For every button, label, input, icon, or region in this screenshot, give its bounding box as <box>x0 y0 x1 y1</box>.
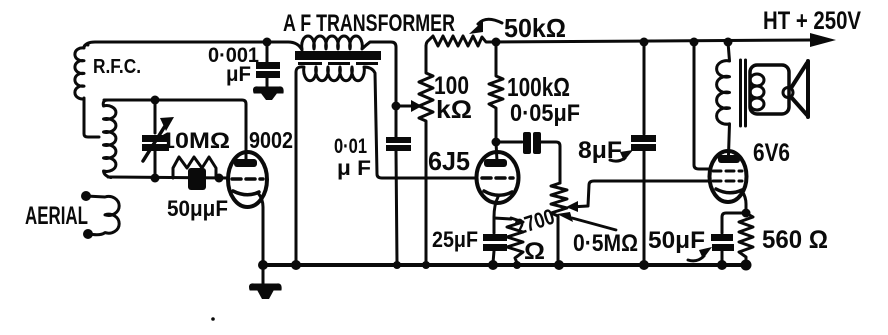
svg-text:R.F.C.: R.F.C. <box>93 56 141 78</box>
resistor 2700 cathode bias <box>507 218 523 263</box>
svg-text:6V6: 6V6 <box>753 139 790 167</box>
6V6 screen dashes <box>713 170 742 173</box>
wire 6J5 cathode <box>494 197 498 233</box>
capacitor 50uF cathode bypass <box>711 234 733 241</box>
node bus junction 2700 <box>513 261 521 269</box>
resistor 100k plate load <box>489 42 503 139</box>
capacitor 0.01uF <box>386 137 411 143</box>
node bus junction 25uF <box>488 260 498 270</box>
wire top-left horizontal from RFC to AF transformer <box>84 42 302 50</box>
svg-text:50μμF: 50μμF <box>167 196 228 221</box>
node bus junction 100k pot <box>422 261 430 269</box>
node junction OPT primary top <box>724 38 733 47</box>
svg-text:9002: 9002 <box>249 127 293 153</box>
node junction 8uF top <box>640 38 649 47</box>
svg-text:560 Ω: 560 Ω <box>762 226 828 254</box>
svg-text:6J5: 6J5 <box>428 146 470 176</box>
node bus junction 0.01uF <box>393 261 401 269</box>
node junction 6V6 screen <box>690 38 699 47</box>
capacitor 0.05uF coupling <box>496 141 522 144</box>
inductor aerial coupling coil <box>86 196 119 235</box>
triode 9002 envelope <box>228 152 267 207</box>
resistor 560 cathode bias <box>739 213 753 263</box>
speaker cone <box>791 61 808 117</box>
node bus junction 50uF <box>717 260 727 270</box>
transformer T1 core <box>295 51 381 60</box>
9002 plate bar <box>234 159 257 167</box>
svg-text:25μF: 25μF <box>432 227 478 252</box>
9002 cathode <box>233 191 259 195</box>
node bus junction T1 secondary <box>291 260 301 270</box>
wire screen feed <box>694 42 709 169</box>
6J5 cathode <box>484 191 512 195</box>
6V6 grid dashes <box>713 180 742 183</box>
node junction tuning-cap top <box>151 96 160 105</box>
svg-text:μ F: μ F <box>337 157 371 180</box>
svg-text:0·05μF: 0·05μF <box>510 100 580 127</box>
arrow label pointer 50uF <box>688 256 704 261</box>
capacitor variable tuning <box>154 100 157 133</box>
svg-text:Ω: Ω <box>524 238 545 265</box>
arrow wiper of 100k pot <box>399 105 412 108</box>
node junction var-cap bottom <box>151 174 160 183</box>
node bus junction 0.5M pot <box>554 260 564 270</box>
transformer T1 primary winding <box>302 36 396 103</box>
svg-text:kΩ: kΩ <box>436 96 472 124</box>
wire RFC bottom lead to coil tap <box>84 98 99 137</box>
arrow label pointer 8uF <box>610 158 625 161</box>
potentiometer 100k regeneration <box>419 46 433 263</box>
svg-text:HT + 250V: HT + 250V <box>763 7 861 35</box>
svg-text:100kΩ: 100kΩ <box>507 72 570 102</box>
transformer T2 output primary <box>717 42 730 155</box>
capacitor 50uuF grid condenser <box>188 168 206 190</box>
svg-text:0·01: 0·01 <box>334 135 367 158</box>
node bus junction 8uF <box>639 260 649 270</box>
svg-text:A F TRANSFORMER: A F TRANSFORMER <box>283 10 455 37</box>
svg-text:AERIAL: AERIAL <box>25 202 88 230</box>
wire 9002 cathode to bus <box>258 193 263 263</box>
speaker voice coil oval <box>783 88 793 98</box>
triode 6J5 envelope <box>477 152 519 203</box>
arrowhead HT supply <box>810 33 836 47</box>
speaker frame <box>750 65 789 114</box>
arrow wiper of 0.5M pot <box>570 181 708 207</box>
capacitor 25uF cathode bypass <box>483 234 507 241</box>
inductor R.F.C. <box>75 45 88 99</box>
transformer T1 secondary winding <box>296 67 477 262</box>
node junction grid-leak right <box>215 174 224 183</box>
svg-text:0·5MΩ: 0·5MΩ <box>573 230 638 257</box>
resistor 10M grid leak <box>173 157 216 178</box>
arrow label pointer 0.5M <box>572 218 616 230</box>
wire grid leak line <box>108 177 228 178</box>
node bus junction 560 <box>741 260 752 271</box>
wire plate feed 0.01 line, wiper junction <box>392 102 401 111</box>
node junction 0.001 cap top <box>263 38 272 47</box>
svg-text:10MΩ: 10MΩ <box>161 128 230 153</box>
svg-text:2700: 2700 <box>512 204 558 240</box>
svg-text:8μF: 8μF <box>578 137 622 164</box>
arrow label pointer 50k <box>478 19 502 24</box>
6J5 grid dashes <box>482 176 513 180</box>
inductor L1 tuning coil <box>103 100 116 178</box>
potentiometer 0.5M top lead from 0.05uF <box>551 183 567 262</box>
ground symbol main <box>262 265 265 284</box>
beam tetrode 6V6 envelope <box>710 151 747 202</box>
transformer T2 secondary loops <box>750 74 764 86</box>
node bus junction 9002 cathode <box>258 260 268 270</box>
wire 6V6 cathode leads <box>742 191 746 212</box>
node aerial terminal top <box>81 191 91 201</box>
capacitor 0.001uF <box>266 42 269 62</box>
capacitor 8uF decoupling <box>643 42 646 134</box>
svg-text:50μF: 50μF <box>648 227 705 254</box>
wire tuned-circuit top (grid cap lead) <box>104 100 246 161</box>
node aerial terminal bottom <box>83 229 93 239</box>
6V6 plate bar <box>718 155 740 163</box>
node junction 100k resistor top <box>492 38 501 47</box>
speck <box>211 317 215 321</box>
ground symbol at 0.001 <box>254 87 284 93</box>
transformer T2 core <box>739 60 742 126</box>
6V6 cathode <box>716 189 742 193</box>
6J5 plate bar <box>484 159 507 167</box>
resistor 50k <box>426 36 812 46</box>
9002 grid dashes <box>232 177 263 181</box>
svg-text:50kΩ: 50kΩ <box>504 13 566 43</box>
node junction 6J5 plate <box>492 138 501 147</box>
wire ground bus <box>263 263 748 267</box>
svg-text:μF: μF <box>226 63 251 86</box>
